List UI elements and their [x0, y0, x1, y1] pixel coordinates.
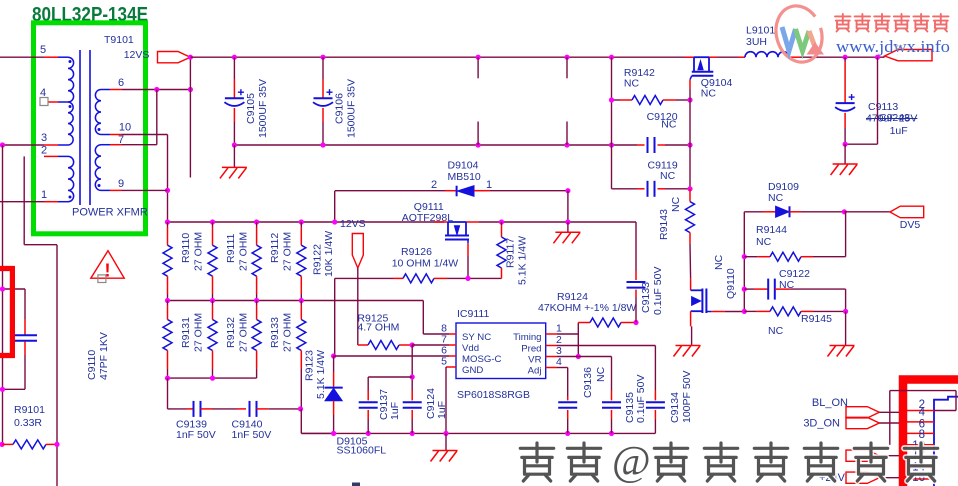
node R9144 left: [742, 254, 747, 259]
svg-text:R9132: R9132: [225, 317, 237, 348]
wire 3D_ON to connector: [879, 422, 899, 424]
capacitor C9113: [844, 57, 846, 62]
wire bottom rail: [301, 432, 655, 434]
svg-text:L9101: L9101: [746, 25, 775, 37]
wire stub down 1: [477, 57, 479, 78]
svg-text:Timing: Timing: [513, 332, 541, 343]
svg-text:4.7 OHM: 4.7 OHM: [357, 322, 399, 334]
connector arrow DV5: [890, 206, 924, 218]
node C9110 branch: [0, 286, 5, 291]
capacitor C9105: [233, 57, 235, 79]
transformer pin 7 lead: [110, 144, 122, 146]
node pin6 right: [188, 87, 193, 92]
wire BL_ON to connector: [879, 411, 899, 413]
node pin6-pin7 junction: [154, 87, 159, 92]
svg-text:SP6018S8RGB: SP6018S8RGB: [457, 389, 530, 401]
capacitor C9134: [654, 391, 656, 401]
svg-text:NC: NC: [768, 325, 784, 337]
svg-text:27 OHM: 27 OHM: [193, 313, 205, 352]
svg-text:NC: NC: [670, 196, 682, 212]
node rail 12VS label: [332, 219, 337, 224]
node rail R9122: [299, 219, 304, 224]
connector pin 6 stub: [907, 432, 934, 434]
node C9113 bottom: [843, 142, 848, 147]
node ground rail stub2: [564, 142, 569, 147]
resistor R9111: [212, 222, 214, 227]
transformer pin 5 lead: [44, 56, 58, 58]
wire Vdd to IC: [412, 344, 449, 346]
capacitor C9136: [567, 397, 569, 401]
node top rail C9105: [232, 55, 237, 60]
svg-text:3: 3: [41, 132, 47, 144]
wire bank bottom to cap row: [167, 378, 169, 409]
svg-text:C9136: C9136: [582, 367, 594, 398]
svg-text:3D_ON: 3D_ON: [803, 418, 840, 430]
connector pin 4 stub: [907, 421, 934, 423]
svg-text:0.33R: 0.33R: [14, 417, 42, 429]
svg-text:NC: NC: [756, 236, 772, 248]
ground below Q9110: [676, 345, 701, 347]
red connector box lower-right (partial): [903, 380, 958, 486]
ground below C9113: [844, 144, 846, 164]
svg-text:NC: NC: [661, 119, 677, 131]
node bottom rail D9105: [331, 431, 336, 436]
wire Vdd column: [411, 345, 413, 391]
svg-text:R9101: R9101: [14, 404, 45, 416]
svg-text:C9243: C9243: [879, 112, 910, 124]
node parallel branch top: [875, 55, 880, 60]
wire D9104 down to rail: [567, 191, 569, 222]
svg-text:R9111: R9111: [225, 233, 237, 263]
svg-text:C9110: C9110: [86, 350, 98, 380]
wire pin1 row to left edge: [0, 201, 44, 203]
node pin9 junction: [165, 188, 170, 193]
wire C9110 branch: [3, 288, 26, 290]
node mid rail R9131: [165, 298, 170, 303]
capacitor C9135: [611, 391, 613, 401]
connector arrow hidden net: [846, 450, 879, 461]
svg-text:27 OHM: 27 OHM: [238, 232, 250, 271]
svg-text:R9112: R9112: [269, 233, 281, 263]
resistor R9101: [0, 442, 5, 447]
node bottom rail C9135: [609, 431, 614, 436]
svg-text:NC: NC: [660, 170, 676, 182]
transformer secondary winding 7-9: [101, 144, 110, 146]
wire pin1 to R9124 riser: [557, 333, 578, 335]
svg-text:T9101: T9101: [104, 34, 134, 46]
red connector box upper-left (partial): [0, 269, 12, 356]
svg-text:6: 6: [118, 77, 124, 89]
svg-text:27 OHM: 27 OHM: [282, 232, 294, 271]
wire pin6 row: [122, 89, 190, 91]
node C9113 top: [843, 55, 848, 60]
transformer primary winding 5-4: [58, 56, 68, 58]
wire R9143 to Q9110 drain: [689, 244, 692, 279]
connector arrow output right: [885, 50, 932, 61]
svg-text:47PF 1KV: 47PF 1KV: [98, 332, 110, 380]
node ground rail stub1: [476, 142, 481, 147]
transformer pin 6 lead: [110, 89, 122, 91]
wire SYNC corner to IC pin 8: [422, 301, 424, 335]
node top rail C9106: [320, 55, 325, 60]
transistor Q9111: [434, 221, 448, 223]
IC pin 1 stub: [546, 333, 557, 335]
transformer primary winding 4-3: [68, 102, 73, 145]
wire pin10 chain: [122, 134, 168, 136]
svg-text:MB510: MB510: [448, 171, 481, 183]
node rail R9110: [165, 219, 170, 224]
wire 12VS arrow to R9125: [357, 268, 359, 345]
watermark logo jdwx: [770, 0, 829, 67]
wire left vertical bus A: [2, 145, 4, 444]
connector pin 2 stub: [907, 410, 934, 412]
connector pin 14 stub: [907, 478, 934, 480]
node ground rail C9106: [320, 142, 325, 147]
svg-text:1500UF 35V: 1500UF 35V: [346, 79, 358, 138]
resistor R9131: [167, 301, 169, 306]
ground below bottom rail: [445, 433, 447, 450]
transistor Q9110: [690, 279, 692, 291]
capacitor C9122: [744, 288, 754, 290]
svg-text:Vdd: Vdd: [462, 343, 479, 354]
wire pin9 row: [122, 189, 168, 191]
node rail ground stub: [565, 219, 570, 224]
svg-text:xv: xv: [893, 39, 907, 54]
svg-text:C9106: C9106: [334, 93, 346, 124]
resistor R9143: [689, 189, 691, 202]
resistor R9125: [358, 344, 368, 346]
inductor L9101: [738, 56, 745, 58]
wire 12VS rail right segment: [479, 221, 636, 223]
wire bank bottom rail: [168, 377, 257, 379]
resistor R9122: [300, 222, 302, 227]
wire D9104 cathode side: [335, 190, 445, 192]
IC pin 7 stub: [449, 344, 456, 346]
IC pin 5 stub: [449, 366, 456, 368]
transistor Q9104: [685, 56, 694, 58]
svg-text:MOSG-C: MOSG-C: [462, 354, 502, 365]
IC pin 2 stub: [546, 345, 557, 347]
wire Adj row to C9136: [557, 367, 568, 369]
op-amp IC9111 body: [456, 323, 546, 379]
node pin3 left: [0, 142, 5, 147]
svg-text:5: 5: [40, 44, 46, 56]
svg-text:POWER XFMR: POWER XFMR: [72, 207, 148, 219]
svg-text:1nF 50V: 1nF 50V: [232, 429, 272, 441]
node bank bottom R9131: [165, 376, 170, 381]
svg-text:R9126: R9126: [401, 246, 432, 258]
node mid rail R9122/R9123: [299, 298, 304, 303]
capacitor C9106: [322, 57, 324, 79]
transformer T9101 core: [79, 50, 81, 205]
wire hidden net to connector: [879, 455, 899, 457]
svg-text:1: 1: [486, 179, 492, 191]
resistor R9117: [501, 222, 503, 225]
wire L9101 to output: [800, 56, 885, 58]
svg-text:1500UF 35V: 1500UF 35V: [257, 79, 269, 138]
wire top rail: [190, 56, 694, 58]
node bottom rail C9124: [410, 431, 415, 436]
svg-text:2: 2: [41, 145, 47, 157]
wire mid rail: [168, 300, 424, 302]
svg-text:BL_ON: BL_ON: [812, 397, 848, 409]
wire 12VS rail: [168, 221, 445, 223]
node top rail R9142 column: [609, 55, 614, 60]
wire pin7 riser: [156, 90, 158, 145]
wire secondary ground rail: [234, 144, 637, 146]
node C9110 bottom: [0, 387, 5, 392]
wire right column of NC block: [689, 100, 691, 189]
svg-text:3UH: 3UH: [746, 36, 767, 48]
transformer pin 1 lead: [44, 201, 58, 203]
svg-text:NC: NC: [595, 366, 607, 382]
wire stub up 1: [477, 122, 479, 146]
diode D9105: [333, 356, 335, 372]
resistor R9142: [620, 99, 632, 101]
svg-text:12VS: 12VS: [340, 218, 366, 230]
wire R9126 to gate node: [448, 277, 502, 279]
resistor R9144: [744, 256, 758, 258]
svg-text:R9131: R9131: [180, 317, 192, 348]
node top rail stub1: [476, 55, 481, 60]
node mid rail R9133: [254, 298, 259, 303]
capacitor C9140: [237, 408, 246, 410]
node top rail stub2: [564, 55, 569, 60]
wire D9104 anode to junction: [490, 190, 568, 192]
transformer secondary winding 6-10: [101, 89, 110, 91]
wire pin2 chain down: [23, 156, 25, 244]
svg-text:R9143: R9143: [658, 209, 670, 240]
node mid rail R9132: [210, 298, 215, 303]
node rail R9111: [210, 219, 215, 224]
node R9145 left / Q9110 gate: [742, 309, 747, 314]
wire R9123 column to bottom rail: [300, 409, 302, 434]
node R9124 right: [633, 320, 638, 325]
svg-text:NC: NC: [713, 254, 725, 270]
svg-text:R9123: R9123: [304, 350, 316, 381]
svg-text:NC: NC: [624, 78, 640, 90]
clipped glyph at bottom edge: [352, 483, 360, 486]
IC pin 8 stub: [449, 333, 456, 335]
connector arrow 3D_ON: [846, 417, 879, 428]
wire stub down 2: [566, 57, 568, 78]
node VR junction: [576, 354, 581, 359]
svg-text:R9117: R9117: [505, 238, 517, 268]
resistor R9132: [212, 301, 214, 306]
svg-text:R9144: R9144: [756, 224, 787, 236]
svg-text:27 OHM: 27 OHM: [282, 313, 294, 352]
node cap row R9123: [298, 406, 303, 411]
capacitor C9110: [24, 289, 26, 319]
ground below R9145: [845, 311, 847, 345]
node D9104 right: [565, 188, 570, 193]
svg-text:Q9110: Q9110: [725, 268, 737, 299]
svg-text:GND: GND: [462, 365, 483, 376]
connector pin 8 stub: [907, 444, 934, 446]
svg-text:2: 2: [431, 179, 437, 191]
svg-text:12VS: 12VS: [124, 49, 150, 61]
resistor R9124: [578, 322, 590, 324]
wire 12VS riser: [189, 57, 191, 89]
svg-text:47KOHM +-1% 1/8W: 47KOHM +-1% 1/8W: [538, 302, 636, 314]
resistor R9110: [167, 222, 169, 227]
node C9122 left: [742, 287, 747, 292]
node rail R9112: [254, 219, 259, 224]
connector body blue outline: [934, 397, 958, 486]
svg-text:1uF: 1uF: [436, 401, 448, 419]
connector pin 10 stub: [907, 455, 934, 457]
ground below C9105: [233, 145, 235, 167]
wire to DV5 arrow: [844, 211, 890, 213]
svg-text:C9105: C9105: [245, 93, 257, 124]
svg-text:10 OHM 1/4W: 10 OHM 1/4W: [392, 258, 459, 270]
transformer primary winding 2-1: [58, 155, 68, 157]
watermark toutiao @jiadianweixiuluntan (grey): [520, 443, 553, 481]
diode D9109: [744, 211, 763, 213]
watermark text jiadian weixiu luntan (red): [835, 14, 851, 32]
wire Q9110 source ground riser: [691, 326, 693, 345]
resistor R9145: [744, 310, 756, 312]
svg-text:10: 10: [119, 122, 131, 134]
wire top rail to L9101: [717, 56, 738, 58]
connector arrow 12VS input: [158, 52, 191, 63]
resistor R9123: [300, 301, 302, 306]
node R9142 right: [687, 97, 692, 102]
connector arrow BL_ON: [846, 407, 879, 418]
resistor R9112: [256, 222, 258, 227]
wire BL_ON net riser: [889, 391, 891, 445]
svg-text:4: 4: [40, 87, 46, 99]
svg-text:0.1uF 50V: 0.1uF 50V: [652, 267, 664, 315]
svg-text:4: 4: [556, 356, 562, 368]
wire left column of NC block: [611, 57, 613, 189]
IC pin 6 stub: [449, 355, 456, 357]
node bottom rail GND: [443, 431, 448, 436]
transformer pin 3 lead: [44, 144, 58, 146]
svg-text:IC9111: IC9111: [457, 308, 489, 320]
node R9145 right: [843, 309, 848, 314]
node R9142 left: [609, 97, 614, 102]
wire R9126 left corner: [335, 277, 393, 279]
resistor R9126: [393, 277, 403, 279]
wire C9137 branch: [368, 376, 412, 378]
ground below 12VS rail: [567, 222, 569, 232]
svg-text:100PF 50V: 100PF 50V: [681, 370, 693, 423]
IC pin 4 stub: [546, 367, 557, 369]
svg-text:1uF: 1uF: [890, 125, 908, 137]
svg-text:Adj: Adj: [528, 366, 542, 377]
transformer pin 2 lead: [44, 155, 58, 157]
wire pin2 chain down 2: [56, 245, 58, 486]
svg-text:R9133: R9133: [269, 317, 281, 348]
transformer T9101 green highlight box: [34, 23, 146, 234]
connector pin 12 stub: [907, 467, 934, 469]
wire +24V to connector: [879, 477, 899, 479]
IC pin 3 stub: [546, 356, 557, 358]
svg-text:10K 1/4W: 10K 1/4W: [323, 231, 335, 277]
node C9119 right / R9143 top: [687, 186, 692, 191]
wire MOSG row to IC pin 6: [334, 355, 449, 357]
transformer pin 10 lead: [110, 134, 122, 136]
wire pin3 row to left edge: [0, 144, 44, 146]
wire stub up 2: [566, 122, 568, 146]
connector arrow +24V: [846, 472, 879, 483]
node top rail at 12VS arrow: [188, 55, 193, 60]
capacitor C9137: [367, 391, 369, 401]
svg-text:27 OHM: 27 OHM: [238, 313, 250, 352]
node Vdd junction: [410, 342, 415, 347]
svg-text:SY NC: SY NC: [462, 332, 491, 343]
transformer pin 9 lead: [110, 189, 122, 191]
svg-text:C9134: C9134: [669, 392, 681, 423]
wire VR row to C9135: [557, 356, 612, 358]
resistor R9133: [256, 301, 258, 306]
svg-text:1uF: 1uF: [389, 402, 401, 420]
svg-text:5: 5: [441, 356, 447, 368]
svg-text:NC: NC: [768, 192, 784, 204]
wire Pred row to C9134: [557, 345, 655, 347]
svg-text:4: 4: [919, 407, 926, 419]
wire rail corner to C9133: [635, 222, 637, 271]
node rail R9117: [499, 219, 504, 224]
svg-text:1: 1: [556, 323, 562, 335]
svg-text:1nF 50V: 1nF 50V: [176, 429, 216, 441]
wire GND pin riser: [446, 366, 449, 368]
capacitor C9139: [168, 408, 187, 410]
svg-text:5.1K 1/4W: 5.1K 1/4W: [315, 350, 327, 399]
svg-text:1: 1: [41, 189, 47, 201]
svg-text:SS1060FL: SS1060FL: [337, 445, 387, 457]
wire parallel branch: [877, 57, 879, 144]
capacitor C9124: [411, 391, 413, 401]
svg-text:D9104: D9104: [448, 160, 479, 172]
node C9120 right: [687, 142, 692, 147]
svg-text:5.1K 1/4W: 5.1K 1/4W: [517, 236, 529, 285]
wire dangling stub below pin6 row: [189, 90, 191, 178]
node MOSG junction: [331, 353, 336, 358]
node ground rail column: [609, 142, 614, 147]
connector arrow 12VS down: [352, 234, 363, 269]
svg-text:NC: NC: [701, 88, 717, 100]
svg-text:Pred: Pred: [521, 344, 541, 355]
svg-text:AOTF298L: AOTF298L: [402, 212, 454, 224]
capacitor C9119: [612, 188, 638, 190]
wire pin2 chain across: [24, 244, 57, 246]
transformer pin 4 lead: [48, 101, 58, 103]
node ground rail C9105: [232, 142, 237, 147]
wire D9109 block left column: [743, 212, 745, 312]
svg-text:VR: VR: [528, 355, 541, 366]
capacitor C9133: [635, 271, 637, 280]
svg-text:27 OHM: 27 OHM: [193, 232, 205, 271]
warning triangle: [91, 251, 124, 279]
svg-text:R9122: R9122: [312, 244, 324, 275]
node bottom rail C9137: [366, 431, 371, 436]
svg-text:R9145: R9145: [801, 313, 832, 325]
node DV5 junction: [842, 209, 847, 214]
node C9137 branch: [410, 374, 415, 379]
svg-text:9: 9: [118, 178, 124, 190]
svg-text:@: @: [612, 439, 651, 485]
svg-text:R9110: R9110: [180, 233, 192, 263]
capacitor C9120 on ground rail: [637, 144, 645, 146]
node bottom rail C9136: [565, 431, 570, 436]
node gate junction: [465, 276, 470, 281]
svg-text:0.1uF 50V: 0.1uF 50V: [635, 375, 647, 423]
node bank bottom R9132: [210, 376, 215, 381]
svg-text:NC: NC: [779, 279, 795, 291]
svg-text:DV5: DV5: [900, 219, 921, 231]
